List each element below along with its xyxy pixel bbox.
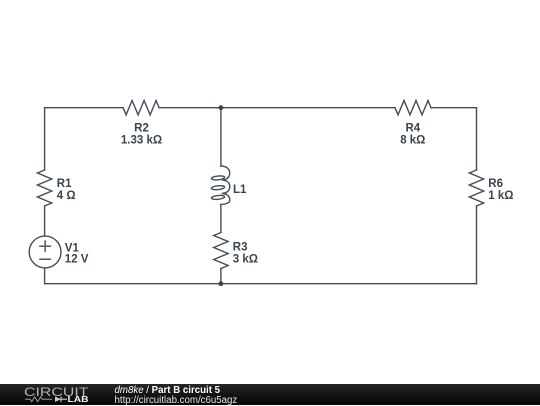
- CircuitLab logo: [20, 384, 100, 405]
- resistor R1 body: [37, 170, 51, 206]
- footer url line: [115, 395, 238, 406]
- wire top-left: node from left rail to R2: [45, 107, 124, 109]
- svg-text:R6: R6: [488, 178, 503, 190]
- wire left rail middle (R1 to V1): [44, 206, 46, 236]
- resistor R4 body: [395, 100, 431, 114]
- wire left rail upper (top node to R1): [44, 108, 46, 170]
- svg-text:R3: R3: [233, 241, 248, 253]
- logo squiggle wire + resistor: [25, 397, 52, 402]
- voltage source V1 circle: [29, 236, 61, 268]
- svg-text:R4: R4: [405, 122, 420, 134]
- svg-text:L1: L1: [233, 184, 247, 196]
- node B junction dot: [219, 281, 224, 286]
- wire top-right: R4 to right rail: [431, 107, 477, 109]
- svg-text:LAB: LAB: [68, 395, 89, 404]
- node A junction dot: [219, 105, 224, 110]
- svg-text:R2: R2: [134, 122, 149, 134]
- svg-text:V1: V1: [65, 242, 80, 254]
- svg-text:8 kΩ: 8 kΩ: [400, 135, 425, 147]
- resistor R6 body: [469, 170, 483, 206]
- svg-text:12 V: 12 V: [65, 254, 89, 266]
- wire middle branch lower (R3 to bottom node B): [220, 269, 222, 284]
- footer bar: [0, 384, 540, 405]
- wire right rail lower (R6 to bottom): [476, 206, 478, 284]
- V1 plus sign: [40, 241, 51, 251]
- resistor R3 body: [214, 233, 228, 269]
- wire middle branch upper (node A to L1): [220, 108, 222, 166]
- wire left rail lower (V1 to bottom rail): [44, 268, 46, 284]
- wire right rail upper (top to R6): [476, 108, 478, 170]
- resistor R2 body: [123, 100, 159, 114]
- svg-text:4 Ω: 4 Ω: [57, 190, 76, 202]
- logo diode: [55, 397, 61, 402]
- svg-text:3 kΩ: 3 kΩ: [233, 254, 258, 266]
- wire bottom rail: [45, 283, 477, 285]
- inductor L1 coil: [221, 166, 230, 180]
- wire top-middle: R2 to node A to R4: [159, 107, 395, 109]
- svg-text:R1: R1: [57, 178, 72, 190]
- V1 minus sign: [40, 258, 51, 260]
- footer title line: [115, 385, 221, 396]
- svg-text:1 kΩ: 1 kΩ: [488, 190, 513, 202]
- wire middle branch between L1 and R3: [220, 205, 222, 233]
- svg-text:1.33 kΩ: 1.33 kΩ: [121, 135, 162, 147]
